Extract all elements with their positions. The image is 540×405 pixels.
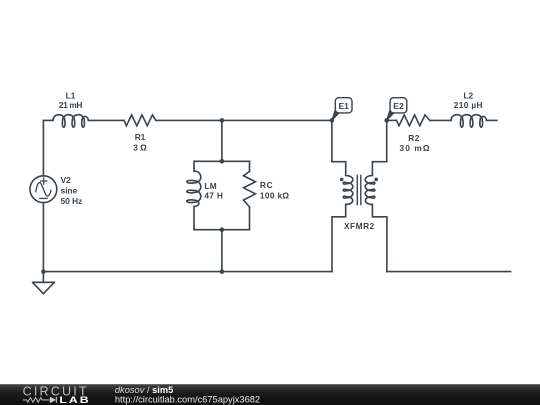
junction node bottom rail: [220, 269, 225, 274]
wire LM top lead: [193, 161, 195, 171]
wire RC bottom lead: [249, 207, 251, 230]
transformer XFMR2 core: [357, 176, 361, 205]
XFMR2 primary phase dot: [340, 178, 344, 182]
voltage source V2: [30, 176, 57, 203]
wire E2 to R2: [387, 119, 397, 121]
wire bottom rail right: [387, 271, 511, 273]
svg-text:E2: E2: [393, 101, 404, 111]
svg-text:RC: RC: [260, 180, 274, 190]
wire E2 down to transformer secondary top: [372, 120, 386, 175]
svg-text:LM: LM: [204, 181, 217, 191]
inductor L2: [451, 115, 487, 128]
CircuitLab logo resistor glyph: [23, 398, 50, 403]
svg-text:L2: L2: [463, 90, 473, 100]
wire node to E1: [222, 119, 332, 121]
wire top rail left stub: [43, 119, 53, 121]
node E2 junction dot: [384, 118, 389, 123]
svg-text:100 kΩ: 100 kΩ: [260, 191, 290, 201]
wire LM bottom lead: [193, 207, 195, 230]
node E2 flag: [387, 98, 407, 121]
svg-text:R2: R2: [408, 133, 420, 143]
wire V2 to ground junction: [42, 203, 44, 272]
svg-text:sine: sine: [61, 186, 78, 196]
footer bar: [0, 384, 540, 405]
junction node above parallel group: [220, 118, 225, 123]
svg-text:E1: E1: [338, 101, 349, 111]
wire L2 dangling end: [487, 119, 497, 121]
wire R1 to node: [156, 119, 222, 121]
svg-text:LAB: LAB: [59, 395, 90, 405]
CircuitLab logo diode glyph: [50, 397, 57, 404]
svg-text:XFMR2: XFMR2: [344, 221, 375, 231]
resistor R2: [397, 115, 430, 126]
V2 plus sign: [41, 178, 47, 184]
svg-text:3 Ω: 3 Ω: [133, 142, 147, 152]
svg-text:30 mΩ: 30 mΩ: [400, 143, 431, 153]
wire parallel bottom bar: [194, 229, 250, 231]
wire E1 to transformer primary top: [332, 120, 346, 175]
V2 minus sign: [40, 197, 47, 199]
wire R2 to L2: [430, 119, 451, 121]
svg-text:21 mH: 21 mH: [59, 100, 83, 110]
junction node parallel top: [220, 159, 225, 164]
svg-text:210 µH: 210 µH: [454, 100, 483, 110]
svg-text:L1: L1: [66, 91, 76, 101]
node E1 junction dot: [330, 118, 335, 123]
wire bottom rail left: [43, 271, 332, 273]
junction node ground: [41, 269, 46, 274]
svg-text:R1: R1: [135, 132, 146, 142]
svg-text:dkosov / sim5: dkosov / sim5: [115, 385, 173, 395]
resistor R1: [124, 115, 156, 126]
inductor L1: [53, 115, 89, 128]
resistor RC: [244, 171, 256, 207]
wire top-left vertical: [42, 120, 44, 175]
wire parallel group to bottom rail: [221, 230, 223, 272]
svg-text:http://circuitlab.com/c675apyj: http://circuitlab.com/c675apyjx3682: [115, 395, 260, 405]
wire node down to parallel group: [221, 120, 223, 161]
wire transformer primary bottom to rail: [332, 204, 346, 271]
svg-text:50 Hz: 50 Hz: [61, 196, 83, 206]
wire L1 to R1: [88, 119, 124, 121]
transformer XFMR2 primary winding: [343, 176, 353, 205]
svg-text:47 H: 47 H: [204, 191, 223, 201]
wire transformer secondary bottom to right rail: [372, 204, 387, 271]
XFMR2 secondary phase dot: [374, 178, 378, 182]
ground symbol: [33, 272, 55, 294]
transformer XFMR2 secondary winding: [365, 176, 375, 205]
wire RC top lead: [249, 161, 251, 171]
node E1 flag: [332, 98, 352, 121]
inductor LM: [187, 171, 201, 207]
junction node parallel bottom: [220, 227, 225, 232]
svg-text:V2: V2: [61, 175, 72, 185]
wire parallel top bar: [194, 160, 250, 162]
V2 sine waveform: [36, 183, 51, 196]
